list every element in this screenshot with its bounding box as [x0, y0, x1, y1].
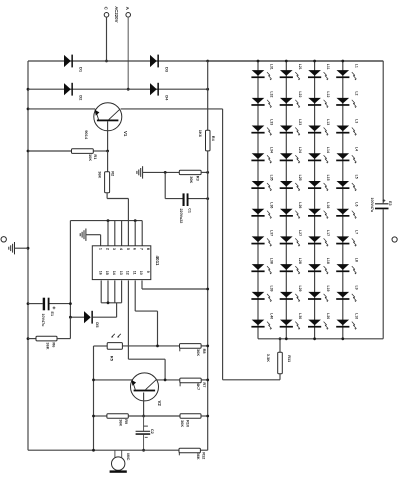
wire D5 right: [93, 316, 117, 318]
svg-text:L37: L37: [270, 230, 274, 236]
svg-text:L22: L22: [298, 91, 302, 97]
ground earth left: [9, 242, 15, 254]
svg-text:L8: L8: [354, 258, 358, 262]
capacitor E3: [370, 198, 392, 213]
LED L13: [308, 119, 330, 136]
wire bottom: [28, 449, 179, 451]
LED L7: [336, 230, 358, 247]
svg-text:L32: L32: [270, 91, 274, 97]
svg-text:L12: L12: [326, 91, 330, 97]
wire E1 left: [28, 303, 43, 305]
LED L1: [336, 64, 358, 81]
svg-text:L5: L5: [354, 175, 358, 179]
svg-text:16: 16: [98, 271, 102, 275]
wire pin3 stub: [114, 221, 116, 246]
wire R1 feed: [28, 150, 72, 152]
LED L23: [280, 119, 302, 136]
svg-text:L29: L29: [298, 285, 302, 291]
svg-text:L9: L9: [354, 285, 358, 289]
wire pin15 stub down: [107, 280, 109, 302]
wire D5 riser: [116, 303, 118, 317]
svg-text:L28: L28: [298, 258, 302, 264]
wire pin2 stub: [107, 221, 109, 246]
wire mid rail lower: [207, 151, 209, 450]
wire right rail upper: [382, 61, 384, 203]
wire LED column 1: [257, 61, 259, 339]
wire earth stub: [14, 247, 28, 249]
junction left rail / E1 wire: [27, 302, 30, 305]
junction D5 node: [69, 316, 72, 319]
svg-text:L4: L4: [354, 147, 358, 151]
wire long vertical x=222.6: [222, 109, 224, 380]
junction R7 / rail: [206, 379, 209, 382]
svg-text:L18: L18: [326, 258, 330, 264]
svg-text:36K: 36K: [45, 342, 50, 349]
wire R5 to R8: [122, 345, 179, 347]
junction C1 / rail: [206, 197, 209, 200]
LED L17: [308, 230, 330, 247]
wire G2 to pin1: [86, 235, 101, 246]
transistor V1: [84, 103, 128, 140]
LED L12: [308, 91, 330, 108]
svg-text:R1: R1: [93, 154, 98, 160]
diode D5: [84, 311, 100, 328]
svg-text:L26: L26: [298, 202, 302, 208]
svg-text:6: 6: [133, 248, 137, 250]
svg-text:L3: L3: [354, 119, 358, 123]
wire D5 left: [70, 316, 84, 318]
svg-text:L35: L35: [270, 175, 274, 181]
wire pin10 path: [142, 280, 208, 289]
photoresistor arrows above R5: [111, 334, 121, 338]
svg-text:L36: L36: [270, 202, 274, 208]
svg-text:L33: L33: [270, 119, 274, 125]
terminal out circle: [392, 237, 397, 242]
svg-text:4K7: 4K7: [196, 383, 201, 390]
svg-text:10: 10: [139, 271, 143, 275]
diode D1: [64, 55, 84, 73]
svg-text:2: 2: [105, 248, 109, 250]
svg-text:36K: 36K: [98, 171, 103, 178]
junction left rail / R1 wire: [27, 150, 30, 153]
wire R9 to base: [128, 415, 180, 417]
LED L10: [336, 313, 358, 330]
wire pin4 stub: [121, 221, 123, 246]
wire R6 right: [57, 317, 70, 338]
LED L34: [251, 147, 273, 164]
junction R3C1 node: [164, 171, 167, 174]
svg-text:R12: R12: [201, 452, 206, 460]
LED L14: [308, 147, 330, 164]
LED L5: [336, 175, 358, 192]
LED L11: [308, 64, 330, 81]
wire LED column 2: [285, 61, 287, 339]
svg-text:11: 11: [132, 271, 136, 275]
capacitor C2: [136, 416, 154, 450]
junction R10 / rail: [206, 415, 209, 418]
svg-text:R3: R3: [195, 176, 200, 182]
junction collector node: [164, 379, 167, 382]
wire left rail vertical: [27, 61, 29, 450]
LED L40: [251, 313, 273, 330]
svg-text:R10: R10: [186, 420, 191, 427]
svg-text:L17: L17: [326, 230, 330, 236]
resistor R4: [198, 130, 216, 151]
wire V2 collector: [157, 379, 180, 381]
LED L8: [336, 258, 358, 275]
junction LED col1 top: [257, 60, 260, 63]
resistor R8: [180, 344, 208, 357]
junction LED col4 top: [341, 60, 344, 63]
LED L29: [280, 285, 302, 302]
svg-text:30K: 30K: [189, 176, 194, 183]
wire R1 to base node: [93, 150, 107, 152]
svg-text:220Vu22: 220Vu22: [179, 209, 183, 224]
LED L2: [336, 91, 358, 108]
svg-text:10V47u: 10V47u: [41, 314, 45, 328]
LED L27: [280, 230, 302, 247]
wire R9 feed: [94, 415, 107, 417]
wire bridge row2: [28, 88, 208, 90]
wire R12 to rail: [200, 449, 207, 451]
LED L20: [308, 313, 330, 330]
wire pin13 stub down: [121, 280, 123, 302]
svg-text:14: 14: [112, 271, 116, 275]
wire emitter rail x=93.5: [93, 346, 95, 450]
LED L31: [251, 64, 273, 81]
ground G3: [137, 166, 143, 178]
svg-text:L34: L34: [270, 147, 274, 153]
svg-text:3: 3: [112, 248, 116, 250]
svg-text:L39: L39: [270, 285, 274, 291]
svg-text:L16: L16: [326, 202, 330, 208]
svg-text:C1: C1: [187, 208, 191, 213]
LED L19: [308, 285, 330, 302]
capacitor E1: [41, 298, 56, 327]
svg-text:1K6: 1K6: [198, 130, 203, 138]
svg-text:36K: 36K: [180, 420, 185, 427]
svg-text:L19: L19: [326, 285, 330, 291]
svg-text:L23: L23: [298, 119, 302, 125]
LED L24: [280, 147, 302, 164]
transistor V2: [131, 373, 163, 407]
junction row1 / mid rail: [206, 60, 209, 63]
svg-text:C2: C2: [150, 429, 154, 434]
svg-text:L25: L25: [298, 175, 302, 181]
microphone MIC: [110, 450, 131, 473]
resistor R12: [179, 448, 206, 460]
svg-text:L10: L10: [354, 313, 358, 319]
LED L26: [280, 202, 302, 219]
svg-text:L11: L11: [326, 64, 330, 70]
svg-text:D1: D1: [79, 67, 84, 73]
svg-text:12: 12: [126, 271, 130, 275]
diode D3: [150, 55, 170, 73]
junction LED col2 bottom: [285, 337, 288, 340]
wire G3 stub: [143, 171, 180, 173]
resistor R3: [179, 170, 201, 183]
wire V2 base: [143, 393, 145, 417]
wire pin5 stub: [127, 221, 129, 246]
wire LED column 3: [314, 61, 316, 339]
svg-text:15: 15: [105, 271, 109, 275]
svg-text:D2: D2: [79, 95, 84, 101]
wire pin7 stub: [141, 221, 143, 246]
svg-text:V2: V2: [157, 401, 162, 407]
svg-text:R2: R2: [111, 171, 116, 177]
svg-text:R6: R6: [51, 342, 56, 348]
junction emitter / rail93: [92, 379, 95, 382]
junction pin11 node: [156, 345, 159, 348]
junction bus pin2: [107, 219, 110, 222]
svg-text:9: 9: [146, 271, 150, 273]
diode D2: [64, 83, 84, 101]
svg-text:R11: R11: [287, 355, 292, 363]
svg-text:7: 7: [139, 248, 143, 250]
svg-text:R8: R8: [202, 349, 207, 355]
svg-text:L21: L21: [298, 64, 302, 70]
junction pin10 / rail: [206, 288, 209, 291]
resistor R6: [36, 336, 57, 349]
svg-text:D5: D5: [95, 322, 100, 328]
resistor R1: [72, 149, 99, 162]
svg-text:3.3K: 3.3K: [266, 354, 271, 362]
junction C / row1: [105, 60, 108, 63]
svg-text:L40: L40: [270, 313, 274, 319]
wire V1 base: [107, 121, 109, 151]
wire V2 emitter: [94, 379, 133, 381]
wire IC top bus: [70, 220, 142, 222]
resistor R7: [180, 378, 207, 390]
LED L38: [251, 258, 273, 275]
wire bus left drop: [69, 221, 71, 318]
wire pin11 path: [135, 280, 157, 346]
wire R3 to rail: [201, 171, 208, 173]
svg-text:L38: L38: [270, 258, 274, 264]
junction rail93 / bottom: [92, 449, 95, 452]
LED L35: [251, 175, 273, 192]
wire C1 left leg: [165, 172, 182, 198]
LED L3: [336, 119, 358, 136]
label AC220V: [114, 6, 119, 22]
wire bottom bus: [101, 302, 121, 304]
svg-text:L1: L1: [354, 64, 358, 68]
junction bus pin6: [134, 219, 137, 222]
wire V1 collector to long vertical: [121, 108, 223, 110]
resistor R11: [266, 352, 292, 373]
svg-text:R4: R4: [211, 136, 216, 142]
svg-text:L24: L24: [298, 147, 302, 153]
LED L28: [280, 258, 302, 275]
wire R11 bottom link: [223, 374, 280, 380]
svg-text:L6: L6: [354, 202, 358, 206]
resistor R2: [98, 171, 116, 193]
LED L33: [251, 119, 273, 136]
LED L18: [308, 258, 330, 275]
junction LED col2 top: [285, 60, 288, 63]
svg-text:L27: L27: [298, 230, 302, 236]
junction C2 / bottom wire: [142, 449, 145, 452]
svg-text:100V47u: 100V47u: [370, 198, 374, 213]
svg-text:36K: 36K: [196, 453, 201, 460]
junction bottom bus: [107, 301, 110, 304]
junction base node: [106, 150, 109, 153]
svg-text:D3: D3: [165, 67, 170, 73]
junction R11 / LED bottom: [279, 337, 282, 340]
svg-text:L14: L14: [326, 147, 330, 153]
resistor R5: [107, 343, 122, 362]
wire right rail lower: [382, 209, 384, 338]
resistor R9: [107, 414, 129, 427]
svg-text:L20: L20: [326, 313, 330, 319]
svg-text:E1: E1: [50, 312, 54, 317]
LED L21: [280, 64, 302, 81]
svg-text:V1: V1: [123, 131, 128, 137]
svg-text:D4: D4: [165, 95, 170, 101]
svg-text:36K: 36K: [196, 349, 201, 356]
junction R8 / rail: [206, 345, 209, 348]
LED L16: [308, 202, 330, 219]
LED L32: [251, 91, 273, 108]
wire R10 to rail: [201, 415, 208, 417]
wire pin16 stub down: [100, 280, 102, 302]
terminal C: [103, 7, 108, 18]
svg-text:L30: L30: [298, 313, 302, 319]
svg-text:13: 13: [119, 271, 123, 275]
svg-text:MIC: MIC: [126, 453, 131, 460]
junction R3 / rail: [206, 171, 209, 174]
svg-text:9014: 9014: [84, 130, 89, 140]
LED L30: [280, 313, 302, 330]
svg-text:L2: L2: [354, 91, 358, 95]
resistor R10: [180, 414, 201, 428]
wire LED bottom bus: [258, 338, 383, 340]
svg-text:1: 1: [99, 248, 103, 250]
wire V1 emitter: [28, 108, 95, 110]
terminal earth circle: [1, 237, 6, 242]
wire LED top bus: [208, 60, 384, 62]
LED L6: [336, 202, 358, 219]
junction E1 node: [69, 302, 72, 305]
LED L15: [308, 175, 330, 192]
LED L37: [251, 230, 273, 247]
wire E1 right: [50, 303, 71, 305]
junction A / row2: [127, 88, 130, 91]
wire R7 to rail: [201, 379, 208, 381]
wire pin14 stub down: [114, 280, 116, 302]
LED L25: [280, 175, 302, 192]
wire base node to R2: [107, 151, 109, 172]
svg-text:E3: E3: [388, 201, 392, 206]
wire C1 to rail: [189, 198, 208, 200]
wire pin6 stub: [134, 221, 136, 246]
LED L4: [336, 147, 358, 164]
diode D4: [150, 83, 170, 101]
junction left rail / bridge row2: [27, 88, 30, 91]
svg-text:L15: L15: [326, 175, 330, 181]
LED L22: [280, 91, 302, 108]
svg-text:AC220V: AC220V: [114, 6, 119, 22]
wire R2 to jog: [107, 193, 128, 221]
junction left rail / R6 wire: [27, 337, 30, 340]
svg-text:L7: L7: [354, 230, 358, 234]
junction LED col3 top: [313, 60, 316, 63]
wire terminal A drop: [127, 17, 129, 89]
terminal A: [125, 7, 130, 18]
junction LED col3 bottom: [313, 337, 316, 340]
LED L9: [336, 285, 358, 302]
junction left rail / earth wire: [27, 247, 30, 250]
wire bridge row1: [28, 60, 383, 62]
junction base V2: [142, 415, 145, 418]
LED L39: [251, 285, 273, 302]
junction left rail / V1 emitter wire: [27, 108, 30, 111]
wire LED column 4: [342, 61, 344, 339]
svg-text:4011: 4011: [155, 256, 160, 266]
svg-text:R5: R5: [109, 356, 114, 362]
svg-text:10K: 10K: [88, 154, 93, 161]
wire terminal C drop: [106, 17, 108, 61]
LED L36: [251, 202, 273, 219]
wire pin12 long drop: [128, 280, 165, 380]
svg-text:L13: L13: [326, 119, 330, 125]
svg-text:8: 8: [146, 248, 150, 250]
wire R8 to rail: [201, 345, 208, 347]
op-amp U1 4011 body: [92, 246, 160, 280]
junction LED col4 bottom: [341, 337, 344, 340]
wire R11 top: [279, 339, 281, 353]
svg-text:R7: R7: [202, 382, 207, 387]
junction rail93 / R9: [92, 415, 95, 418]
junction row2 / mid rail: [206, 88, 209, 91]
svg-text:R9: R9: [124, 419, 129, 425]
ground G2: [80, 229, 86, 241]
svg-text:5: 5: [126, 248, 130, 250]
capacitor C1: [179, 193, 192, 223]
wire mid rail upper: [207, 61, 209, 130]
svg-text:L31: L31: [270, 64, 274, 70]
wire R6 left: [28, 338, 36, 340]
svg-text:36K: 36K: [119, 419, 124, 426]
wire R5 feed: [94, 345, 108, 347]
